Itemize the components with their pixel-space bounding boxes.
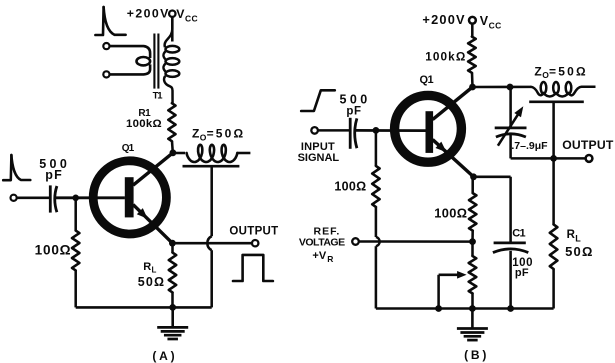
svg-text:pF: pF bbox=[346, 105, 361, 117]
svg-text:(A): (A) bbox=[152, 349, 177, 363]
svg-text:SIGNAL: SIGNAL bbox=[298, 152, 340, 164]
svg-text:V: V bbox=[480, 14, 489, 28]
svg-text:CC: CC bbox=[489, 21, 502, 31]
svg-text:Q1: Q1 bbox=[122, 143, 135, 154]
svg-text:100kΩ: 100kΩ bbox=[126, 118, 162, 130]
svg-text:50Ω: 50Ω bbox=[565, 244, 593, 259]
svg-text:L: L bbox=[152, 266, 157, 275]
svg-text:=50Ω: =50Ω bbox=[207, 127, 246, 141]
svg-text:100Ω: 100Ω bbox=[434, 205, 467, 220]
svg-text:100Ω: 100Ω bbox=[35, 242, 72, 257]
svg-text:Z: Z bbox=[534, 64, 541, 78]
svg-text:R: R bbox=[327, 254, 333, 264]
svg-text:=50Ω: =50Ω bbox=[549, 64, 588, 78]
svg-text:CC: CC bbox=[185, 13, 198, 23]
svg-text:(B): (B) bbox=[464, 348, 489, 362]
svg-text:VOLTAGE: VOLTAGE bbox=[299, 236, 345, 248]
svg-text:V: V bbox=[176, 7, 185, 21]
svg-text:Z: Z bbox=[192, 127, 199, 141]
svg-text:L: L bbox=[575, 234, 581, 244]
svg-text:+200V: +200V bbox=[127, 7, 170, 21]
svg-text:100kΩ: 100kΩ bbox=[425, 49, 466, 63]
svg-text:pF: pF bbox=[45, 168, 63, 182]
svg-text:+200V: +200V bbox=[422, 12, 465, 27]
svg-text:+V: +V bbox=[312, 250, 326, 262]
svg-text:pF: pF bbox=[515, 267, 529, 279]
svg-text:C1: C1 bbox=[512, 228, 525, 240]
svg-text:50Ω: 50Ω bbox=[138, 275, 166, 289]
svg-text:.7–.9μF: .7–.9μF bbox=[511, 140, 548, 152]
svg-text:Q1: Q1 bbox=[420, 74, 434, 86]
svg-text:100Ω: 100Ω bbox=[334, 179, 366, 193]
svg-text:R: R bbox=[143, 261, 151, 273]
svg-text:OUTPUT: OUTPUT bbox=[229, 225, 278, 237]
svg-text:OUTPUT: OUTPUT bbox=[562, 138, 614, 152]
